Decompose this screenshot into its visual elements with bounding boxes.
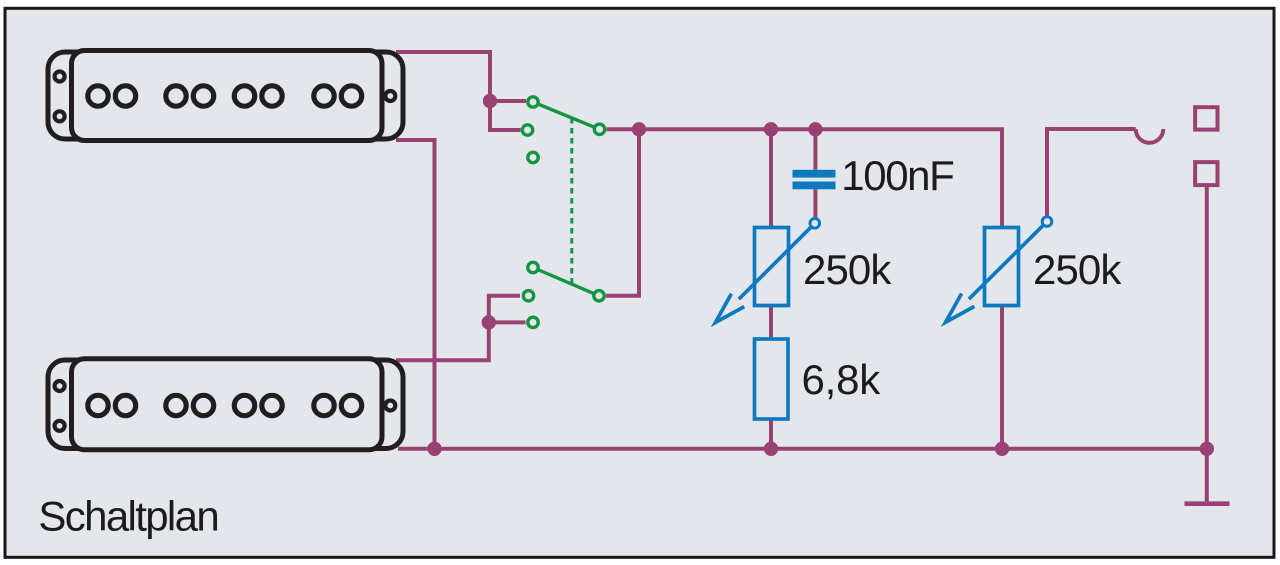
svg-text:250k: 250k xyxy=(1033,246,1122,293)
svg-text:6,8k: 6,8k xyxy=(802,356,882,403)
svg-text:100nF: 100nF xyxy=(841,152,953,199)
svg-text:250k: 250k xyxy=(803,246,892,293)
svg-text:Schaltplan: Schaltplan xyxy=(38,493,218,540)
